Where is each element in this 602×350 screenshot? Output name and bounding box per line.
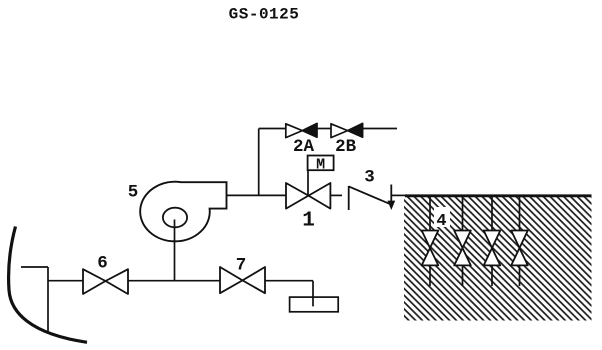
svg-text:2B: 2B	[335, 137, 357, 157]
svg-text:4: 4	[436, 212, 446, 231]
svg-text:6: 6	[97, 254, 108, 274]
svg-text:3: 3	[364, 168, 375, 188]
svg-text:M: M	[316, 157, 325, 174]
svg-text:1: 1	[302, 209, 315, 232]
svg-text:5: 5	[128, 183, 139, 203]
svg-text:2A: 2A	[293, 137, 315, 157]
svg-text:7: 7	[236, 256, 247, 276]
svg-text:GS-0125: GS-0125	[229, 6, 300, 24]
